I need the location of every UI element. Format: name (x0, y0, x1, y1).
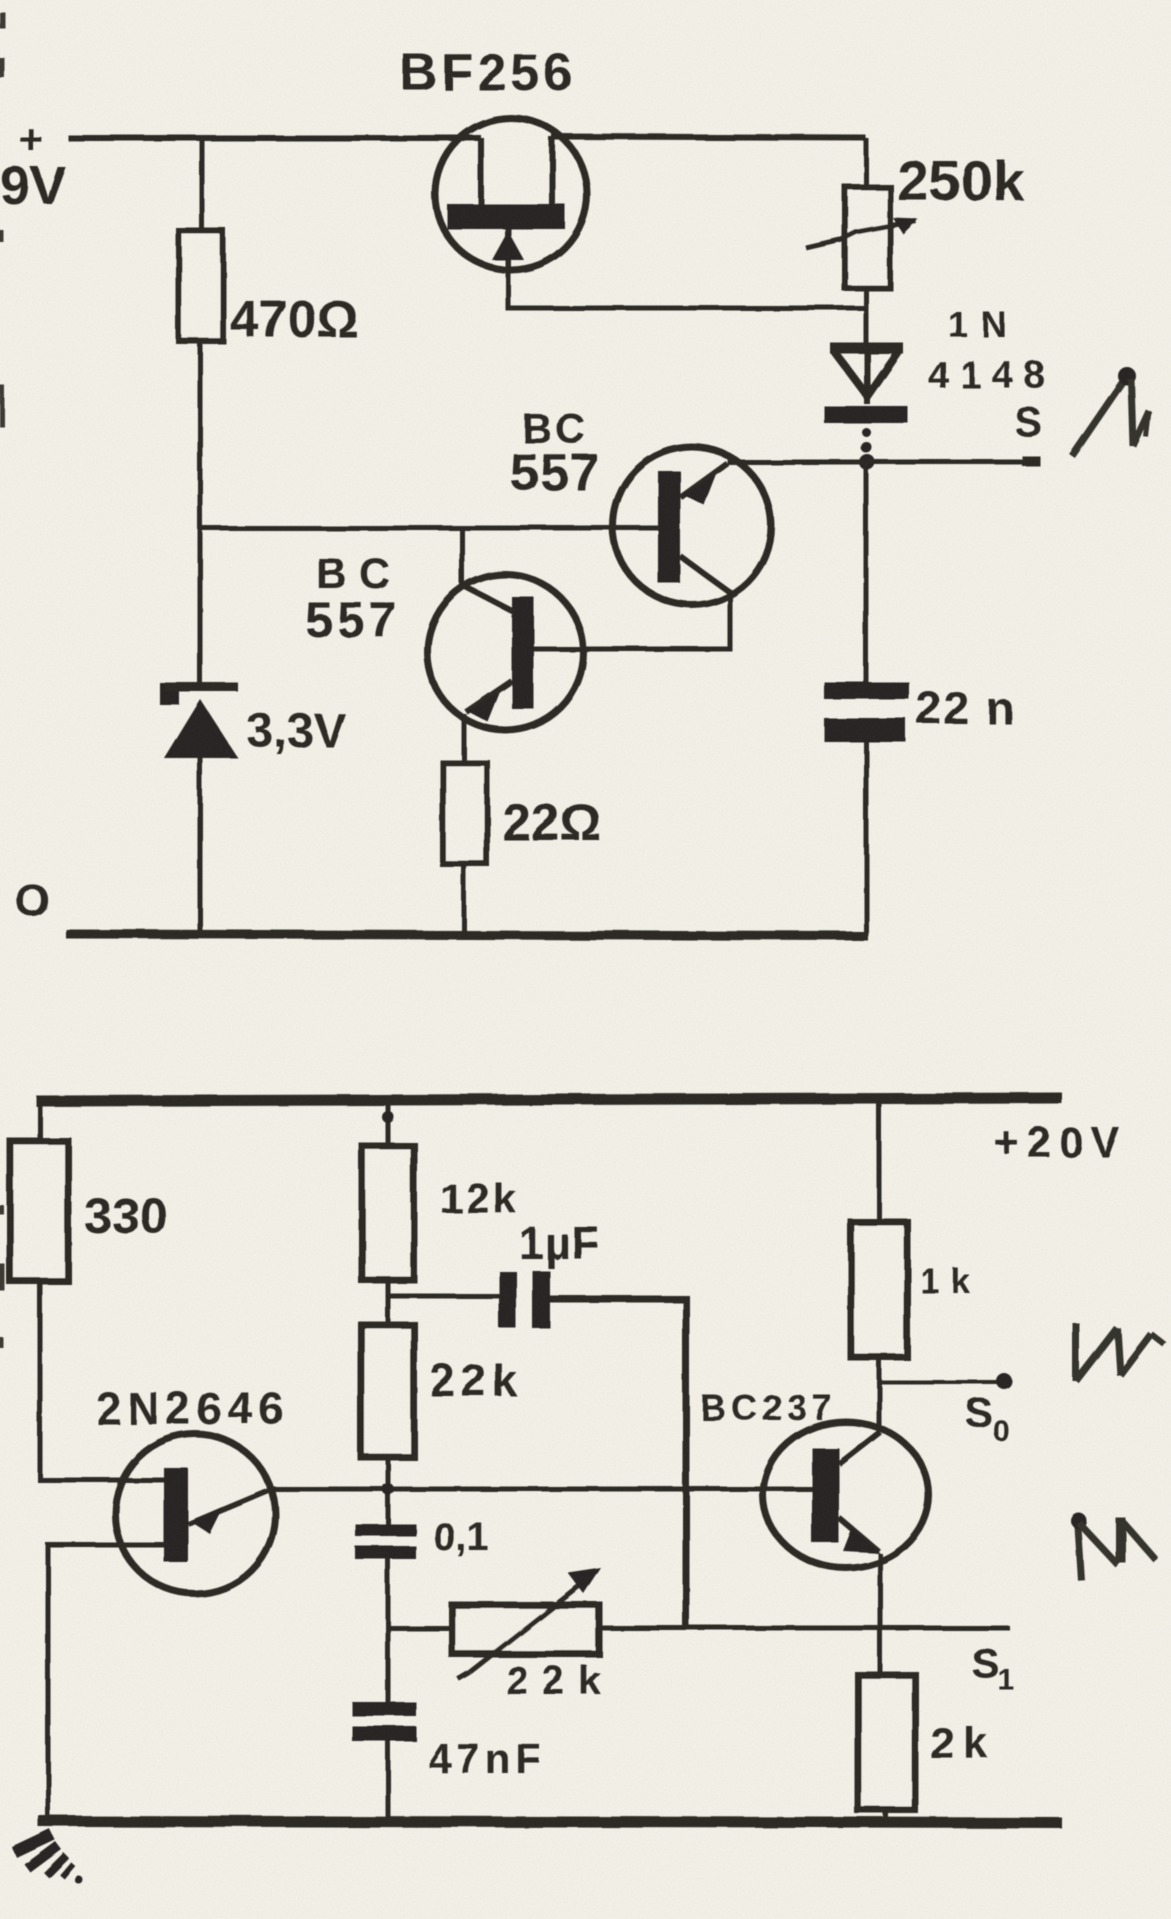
wire 22R bottom to 0V rail (462, 864, 467, 933)
wire T2 collector down then left to T3 base (534, 593, 730, 649)
transistor T3 BC557 (lower) (427, 574, 583, 730)
node S0 output (879, 1380, 1000, 1384)
wire 250k bottom to diode (864, 288, 869, 346)
resistor R7 2k (858, 1675, 915, 1810)
capacitor C1 22n (824, 462, 909, 936)
resistor R5 22k (361, 1325, 414, 1457)
resistor P1 250k (variable) (806, 187, 918, 288)
wire +20V top rail (36, 1098, 1062, 1101)
node S output terminal (1022, 456, 1040, 466)
label S0 (965, 1389, 1010, 1448)
wire ground bottom rail (38, 1821, 1062, 1823)
resistor R2 22R (443, 763, 487, 864)
resistor R6 1k (851, 1099, 907, 1357)
resistor R3 330 (10, 1101, 68, 1281)
transistor T5 BC237 (763, 1422, 929, 1568)
scan artifacts left edge (1, 12, 2, 1348)
transistor T2 BC557 (upper) (613, 447, 771, 605)
wire zener to 0V rail (198, 758, 203, 933)
wire UJT B1 down to ground rail (48, 1545, 164, 1823)
wire 330 down to UJT B2 (40, 1278, 164, 1480)
wire T2 base from left rail (200, 526, 659, 531)
wire output line S (727, 460, 1038, 465)
wire 0V bottom rail (66, 934, 868, 936)
wire left rail 470R to zener (198, 341, 203, 684)
wire 2k bottom to ground rail (884, 1810, 889, 1823)
potentiometer P2 22k (388, 1568, 601, 1679)
waveform inverse sawtooth at S1 (1071, 1513, 1156, 1580)
capacitor C3 0.1 (355, 1524, 416, 1628)
label +9V supply (0, 116, 66, 216)
wire tap to 1uF (388, 1294, 499, 1299)
wire gate lead down and right to 250k/diode junction (508, 270, 866, 308)
ground symbol (14, 1834, 83, 1884)
capacitor C4 47nF (352, 1627, 416, 1823)
waveform sawtooth at S (1072, 367, 1149, 456)
wire +9V top rail right segment (552, 137, 866, 138)
wire T3 collector up to base line (460, 528, 465, 587)
wire BC237 emitter down through S1 line to 2k (878, 1553, 883, 1675)
wire 22k bottom to 0.1 cap (386, 1457, 391, 1526)
diode D1 1N4148 (824, 346, 908, 470)
label B C 557 (lower) (305, 550, 402, 648)
wire UJT emitter to BC237 base (272, 1487, 812, 1492)
zener diode D2 3.3V (160, 683, 238, 758)
transistor T1 BF256 JFET (435, 118, 587, 270)
resistor R1 470R (179, 138, 223, 341)
resistor R4 12k (362, 1100, 414, 1280)
node junction at 22k bottom / emitter line (382, 1483, 394, 1495)
wire right rail corner down to 250k (864, 138, 869, 187)
wire +9V top rail left segment (68, 135, 481, 141)
wire 12k bottom to 22k top (386, 1280, 391, 1325)
label S1 (971, 1639, 1014, 1696)
label BC 557 (upper) (510, 405, 600, 502)
transistor T4 2N2646 UJT (115, 1434, 275, 1594)
wire 1k bottom to BC237 collector (877, 1357, 882, 1432)
label 1N 4148 (928, 304, 1057, 397)
capacitor C2 1uF (499, 1271, 686, 1627)
waveform sawtooth at S0 (1076, 1323, 1164, 1381)
wire pot right to S1 (600, 1626, 1010, 1631)
wire T3 emitter to 22R (462, 714, 467, 763)
